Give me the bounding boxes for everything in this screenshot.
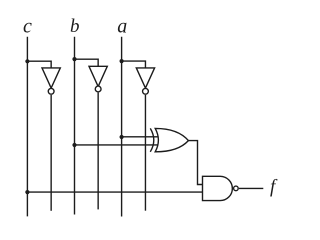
inverter U3 bubble — [143, 88, 149, 94]
wire b vertical — [74, 37, 76, 215]
wire c to NAND bottom input — [27, 191, 202, 193]
wire b-bar vertical — [97, 93, 99, 210]
wire a to inverter U3 input — [122, 61, 146, 68]
wire a to XOR top input — [122, 136, 159, 138]
inverter U1 bubble — [48, 88, 54, 94]
nand gate U5 bubble — [234, 186, 239, 191]
wire a vertical — [121, 37, 123, 217]
junction dot b to inverter — [72, 57, 76, 61]
svg-text:a: a — [117, 15, 127, 37]
junction dot a to xor — [120, 135, 124, 139]
junction dot c to inverter — [25, 59, 29, 63]
wire XOR output to NAND top input — [188, 141, 202, 185]
inverter U2 (b) triangle — [89, 66, 107, 86]
svg-text:b: b — [70, 16, 80, 37]
svg-text:c: c — [23, 15, 32, 37]
xor gate U4 input arc — [150, 128, 154, 151]
junction dot c to nand — [25, 190, 29, 194]
wire a-bar vertical — [144, 95, 146, 211]
inverter U3 (a) triangle — [136, 68, 154, 88]
inverter U2 bubble — [95, 86, 101, 92]
wire c to inverter U1 input — [27, 61, 51, 68]
wire b to inverter U2 input — [75, 59, 99, 66]
inverter U1 (c) triangle — [42, 68, 60, 88]
xor gate U4 body — [155, 128, 188, 151]
nand gate U5 body — [203, 176, 233, 200]
wire NAND output to f — [239, 187, 263, 189]
wire c-bar vertical — [50, 95, 52, 211]
junction dot b to xor — [72, 143, 76, 147]
wire c vertical — [26, 37, 28, 217]
wire b to XOR bottom input — [75, 144, 159, 146]
junction dot a to inverter — [120, 59, 124, 63]
svg-text:f: f — [270, 177, 278, 198]
